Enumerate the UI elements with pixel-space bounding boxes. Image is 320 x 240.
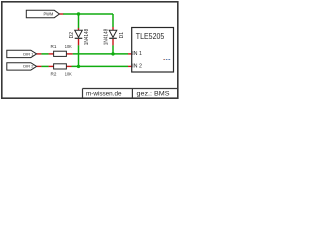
svg-text:TLE5205: TLE5205 xyxy=(136,31,165,41)
svg-text:10K: 10K xyxy=(65,72,73,77)
svg-text:PWM: PWM xyxy=(44,12,54,17)
svg-text:D1: D1 xyxy=(119,32,125,39)
svg-text:R1: R1 xyxy=(51,44,57,49)
svg-text:DIR 2: DIR 2 xyxy=(23,64,34,69)
svg-text:IN 2: IN 2 xyxy=(132,63,142,69)
svg-text:1N4148: 1N4148 xyxy=(103,29,109,46)
svg-text:10K: 10K xyxy=(65,44,73,49)
svg-text:D2: D2 xyxy=(69,32,75,39)
svg-text:1N4148: 1N4148 xyxy=(84,29,90,46)
svg-text:R2: R2 xyxy=(51,72,57,77)
svg-text:IN 1: IN 1 xyxy=(132,51,142,57)
svg-text:gez.: BMS: gez.: BMS xyxy=(137,90,170,97)
svg-text:m-wissen.de: m-wissen.de xyxy=(86,90,122,97)
svg-text:DIR 1: DIR 1 xyxy=(23,52,34,57)
